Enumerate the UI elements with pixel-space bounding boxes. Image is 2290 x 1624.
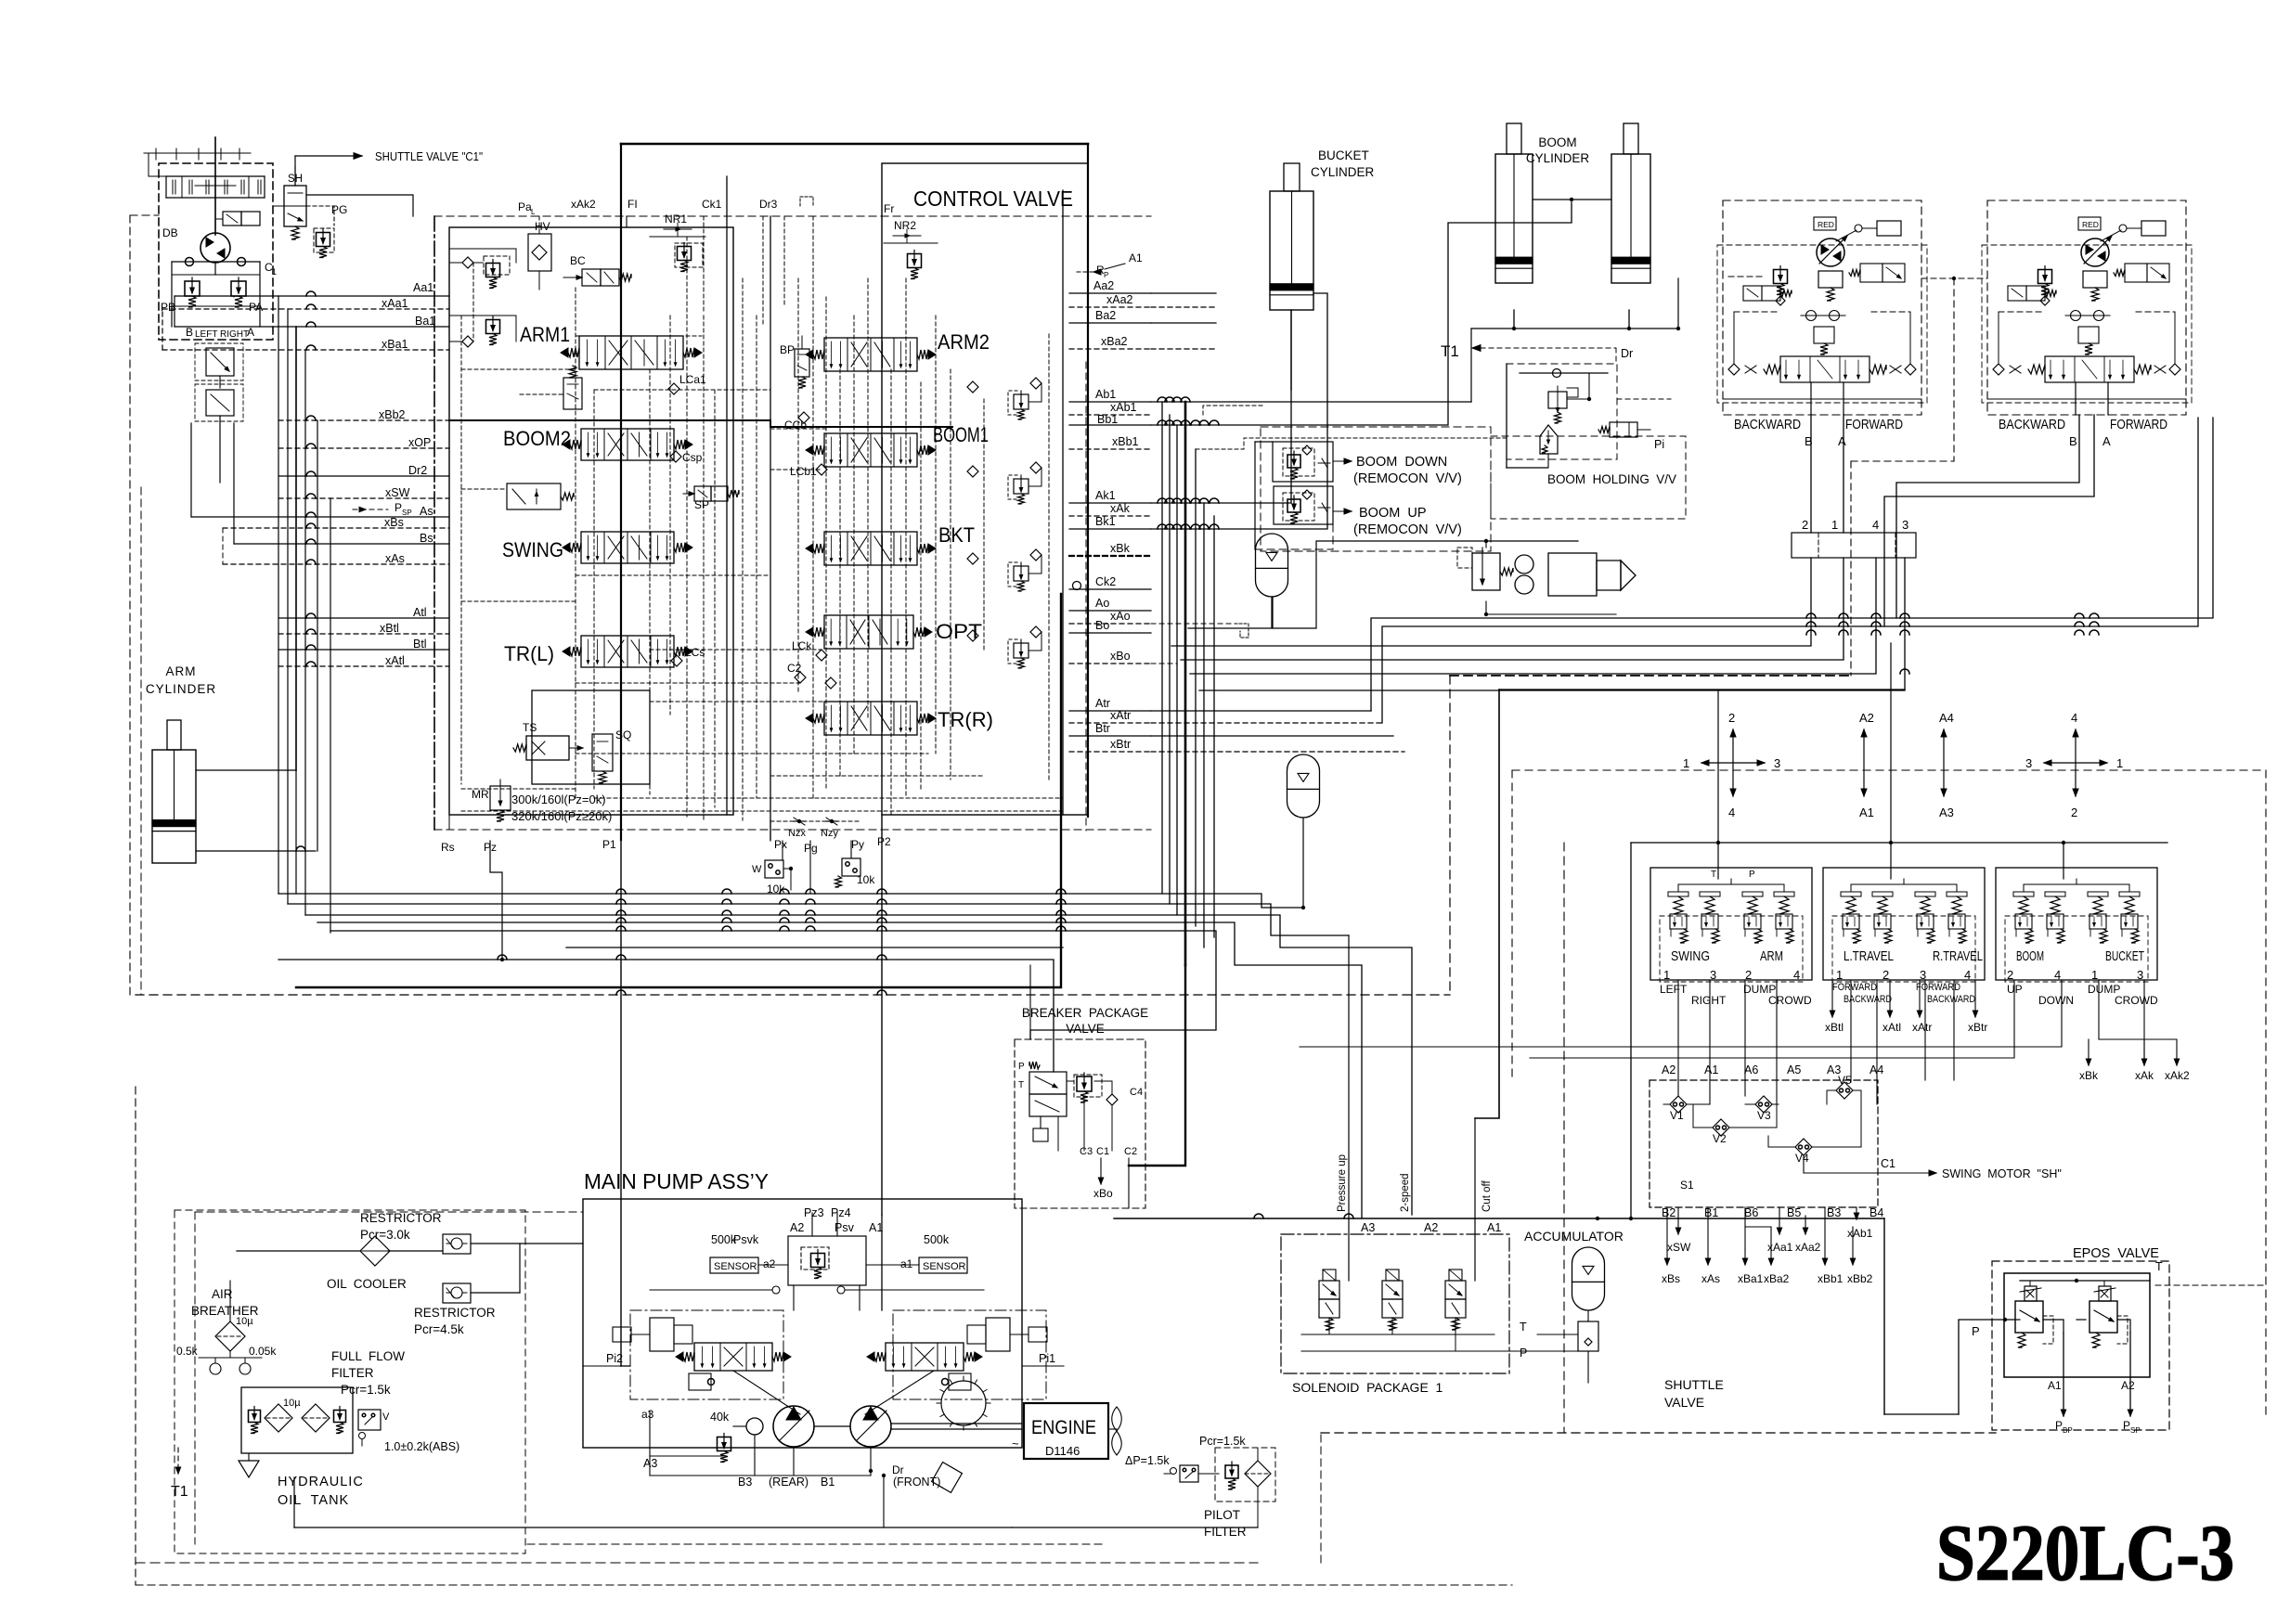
svg-text:L: L [531, 208, 536, 216]
pilot relief [1225, 1465, 1238, 1478]
relief cluster ba1 [462, 336, 473, 347]
svg-text:2: 2 [1745, 968, 1752, 982]
svg-text:B: B [186, 326, 193, 339]
svg-text:RESTRICTOR: RESTRICTOR [414, 1306, 496, 1320]
svg-text:A4: A4 [1939, 711, 1954, 725]
arrow boom down [1333, 460, 1352, 462]
svg-text:NR2: NR2 [894, 219, 916, 232]
svg-text:C3: C3 [1080, 1146, 1093, 1157]
T P manifold [1678, 883, 1784, 885]
boom cyl head lines [1513, 310, 1515, 329]
svg-text:B2: B2 [1662, 1206, 1675, 1219]
svg-text:A: A [247, 326, 254, 339]
2-speed dashed pilot [1450, 675, 1851, 677]
svg-text:10k: 10k [857, 873, 875, 886]
svg-text:1: 1 [1836, 968, 1843, 982]
svg-text:1: 1 [272, 267, 277, 277]
svg-text:xBtr: xBtr [1968, 1021, 1987, 1034]
svg-text:CONTROL VALVE: CONTROL VALVE [913, 187, 1073, 211]
svg-text:4: 4 [1793, 968, 1800, 982]
svg-text:T1: T1 [171, 1484, 188, 1500]
right bank check circles [967, 381, 978, 393]
svg-text:Dr: Dr [892, 1463, 904, 1476]
breather checks [210, 1363, 221, 1374]
svg-text:xBa2: xBa2 [1764, 1272, 1790, 1285]
svg-text:SP: SP [694, 498, 709, 511]
dashed port stubs [1660, 916, 1803, 982]
svg-text:2: 2 [1802, 518, 1808, 532]
svg-text:xBb1: xBb1 [1818, 1272, 1844, 1285]
svg-text:A1: A1 [1487, 1221, 1501, 1234]
svg-text:T: T [1520, 1321, 1527, 1334]
accumulator 3 [1572, 1247, 1605, 1310]
svg-text:LEFT: LEFT [1660, 983, 1688, 996]
svg-text:HV: HV [535, 220, 550, 233]
svg-text:T1: T1 [1441, 342, 1459, 360]
svg-text:xBk: xBk [2079, 1069, 2099, 1082]
EPOS prop valve 2 [2089, 1301, 2117, 1333]
svg-text:Ao: Ao [1095, 597, 1109, 610]
svg-text:A1: A1 [2048, 1379, 2062, 1392]
left dashed verticals bottom [174, 1244, 175, 1262]
svg-text:xBo: xBo [1093, 1187, 1113, 1200]
svg-text:LCa1: LCa1 [679, 373, 706, 386]
svg-text:MR: MR [472, 788, 489, 801]
svg-text:BKT: BKT [938, 523, 975, 547]
swing arm pilot drops to shuttle [1677, 980, 1679, 1080]
ENGINE box [1024, 1403, 1108, 1459]
svg-text:ARM: ARM [166, 664, 197, 678]
gear symbol small [932, 1463, 963, 1493]
boom holding valve group [1507, 364, 1617, 459]
pilot filter [1245, 1461, 1271, 1487]
svg-text:RED: RED [2082, 220, 2099, 229]
svg-text:VALVE: VALVE [1664, 1395, 1704, 1410]
svg-text:SWING: SWING [502, 538, 563, 561]
svg-text:Cut off: Cut off [1481, 1180, 1493, 1212]
pilot filter dashed box [1215, 1448, 1275, 1502]
svg-text:Dr: Dr [1621, 347, 1633, 360]
svg-text:BUCKET: BUCKET [1318, 148, 1369, 162]
dashed port stubs [1832, 916, 1975, 982]
svg-text:OIL TANK: OIL TANK [278, 1493, 349, 1508]
svg-text:Fr: Fr [884, 202, 894, 215]
svg-text:B1: B1 [821, 1476, 834, 1489]
EPOS P feed from shuttle [1884, 1413, 1959, 1415]
svg-text:SHUTTLE VALVE "C1": SHUTTLE VALVE "C1" [375, 149, 483, 163]
motor block [1818, 271, 1843, 288]
svg-text:2: 2 [1728, 711, 1735, 725]
full flow filter box [241, 1387, 353, 1453]
2-speed solenoid [2008, 286, 2026, 301]
svg-text:Aa1: Aa1 [413, 281, 433, 294]
LCb1 check [816, 464, 827, 475]
svg-text:DB: DB [162, 226, 178, 239]
svg-text:ΔP=1.5k: ΔP=1.5k [1125, 1454, 1170, 1467]
pilot gear pump [746, 1418, 763, 1435]
svg-text:Bb1: Bb1 [1097, 413, 1118, 426]
solenoid valve A1 [1445, 1281, 1466, 1299]
svg-text:D1146: D1146 [1045, 1444, 1080, 1458]
counterbalance inner dashed [1717, 245, 1927, 403]
remocon boom up valve [1274, 486, 1333, 524]
svg-text:10µ: 10µ [236, 1316, 253, 1327]
rcv feed drop right [2201, 664, 2203, 843]
filter bypass reliefs [249, 1411, 261, 1423]
valve PG relief [317, 233, 330, 247]
right port lines [1069, 292, 1151, 294]
svg-text:Pi: Pi [1654, 438, 1664, 451]
control valve internal pilot web [460, 316, 462, 784]
svg-text:LCk: LCk [792, 639, 812, 652]
svg-text:V5: V5 [1838, 1074, 1852, 1087]
remote control valve box SWING [1650, 868, 1812, 980]
svg-text:RIGHT: RIGHT [220, 329, 249, 340]
accumulator tie lines [1537, 1334, 1578, 1335]
svg-text:FI: FI [627, 198, 638, 211]
restrictor 2 [443, 1283, 471, 1303]
svg-text:3: 3 [2137, 968, 2143, 982]
svg-text:BREAKER PACKAGE: BREAKER PACKAGE [1022, 1006, 1148, 1020]
tank internal dashed box [175, 1210, 525, 1553]
svg-text:T: T [1711, 870, 1716, 880]
counterbalance spool [1780, 356, 1870, 382]
arm1 regen valve [563, 378, 582, 409]
svg-text:LEFT: LEFT [195, 329, 217, 340]
svg-text:TR(L): TR(L) [504, 642, 554, 665]
swing brake shuttle valve [206, 348, 234, 376]
speed change piston [1877, 221, 1901, 236]
svg-text:SOLENOID PACKAGE 1: SOLENOID PACKAGE 1 [1292, 1380, 1443, 1395]
svg-text:xAtl: xAtl [1882, 1021, 1901, 1034]
swing priority valve xSW [507, 483, 561, 509]
svg-text:xBa1: xBa1 [1738, 1272, 1764, 1285]
solenoid feed drops [1411, 1215, 1413, 1281]
svg-text:Psvk: Psvk [733, 1233, 759, 1246]
svg-text:a3: a3 [641, 1408, 654, 1421]
dashed box around remocons [1261, 427, 1491, 551]
svg-text:A1: A1 [869, 1221, 883, 1234]
cooler wires [237, 1250, 360, 1252]
svg-text:BACKWARD: BACKWARD [1734, 417, 1801, 432]
boom holding relief [1548, 392, 1567, 408]
svg-text:xBo: xBo [1110, 650, 1131, 663]
svg-text:xBa2: xBa2 [1101, 335, 1128, 348]
svg-text:4: 4 [1872, 518, 1879, 532]
bundle crossing bumps [1158, 420, 1167, 425]
OIL COOLER [360, 1236, 390, 1266]
svg-text:FORWARD: FORWARD [1832, 982, 1877, 993]
svg-text:A2: A2 [1859, 711, 1874, 725]
top port drops [626, 216, 627, 227]
pump swash diagonals [733, 1371, 800, 1414]
EPOS prop valve 1 [2015, 1301, 2043, 1333]
pump circles [773, 1406, 814, 1447]
svg-text:1: 1 [1831, 518, 1838, 532]
valve SQ [592, 734, 613, 771]
svg-text:xBk: xBk [1110, 542, 1131, 555]
svg-text:Ba2: Ba2 [1095, 309, 1116, 322]
swing motor drop links [174, 296, 175, 327]
svg-text:Pi2: Pi2 [606, 1352, 623, 1365]
engine fan [1112, 1407, 1122, 1431]
heavy return line [296, 594, 1061, 987]
svg-text:P: P [395, 501, 402, 514]
power shift regulator [788, 1236, 866, 1285]
boom2 Csp check [670, 451, 681, 462]
svg-text:xOP: xOP [408, 436, 431, 449]
throttle checks [1745, 366, 1756, 373]
C1 to swing motor arrow [1804, 1155, 1903, 1173]
right bundle verticals [1161, 402, 1163, 894]
svg-text:NR1: NR1 [665, 213, 687, 226]
svg-text:BOOM HOLDING V/V: BOOM HOLDING V/V [1547, 471, 1677, 486]
svg-text:Bk1: Bk1 [1095, 515, 1116, 528]
svg-text:Btr: Btr [1095, 722, 1110, 735]
left bank housing [449, 227, 733, 815]
P supply line to solenoid/shuttle [1114, 1218, 1884, 1219]
pump control spool right [886, 1343, 964, 1371]
svg-text:A2: A2 [1424, 1221, 1438, 1234]
svg-text:TS: TS [523, 721, 537, 734]
parking valve [1860, 264, 1882, 282]
svg-text:RED: RED [1818, 220, 1834, 229]
svg-text:1: 1 [1663, 968, 1670, 982]
check pair [2071, 311, 2081, 321]
port Dr3 dashed stub [800, 197, 813, 206]
svg-text:xAk2: xAk2 [2165, 1069, 2190, 1082]
svg-text:Ba1: Ba1 [415, 315, 435, 328]
svg-text:Nzx: Nzx [788, 828, 806, 839]
gear symbol big [941, 1381, 986, 1425]
pump control spool left [694, 1343, 772, 1371]
T P manifold [1851, 883, 1957, 885]
shuttle below wires and labels [1677, 1207, 1679, 1234]
boom cylinders rod-end link [1533, 199, 1611, 200]
air breather [215, 1321, 245, 1351]
crossover relief [2078, 327, 2099, 343]
dashed return bottom [148, 989, 149, 1087]
breaker selector valve [1029, 1072, 1067, 1094]
xBk xAk xAk2 labels [2088, 1039, 2089, 1065]
valve BP boom priority [795, 349, 809, 377]
wires swing to ports [233, 296, 235, 298]
svg-text:Ck1: Ck1 [702, 198, 722, 211]
xAb1 dashed jog [1203, 406, 1262, 415]
svg-text:S1: S1 [1680, 1179, 1694, 1192]
svg-text:Nzy: Nzy [821, 828, 838, 839]
svg-text:4: 4 [2054, 968, 2061, 982]
svg-text:xAs: xAs [385, 552, 405, 565]
svg-text:xBtl: xBtl [1825, 1021, 1844, 1034]
svg-text:xAa1: xAa1 [1767, 1241, 1793, 1254]
svg-text:(REMOCON V/V): (REMOCON V/V) [1353, 471, 1462, 486]
svg-text:B3: B3 [738, 1476, 752, 1489]
svg-text:1.0±0.2k(ABS): 1.0±0.2k(ABS) [384, 1440, 459, 1453]
svg-text:BOOM: BOOM [2016, 948, 2044, 964]
joystick swing/arm [1701, 762, 1765, 764]
solenoid package dash-dot box [1281, 1234, 1509, 1373]
left dashed return boundary [129, 215, 131, 995]
svg-text:500k: 500k [924, 1233, 950, 1246]
svg-text:2: 2 [2071, 806, 2077, 819]
control valve outer heavy top line [621, 143, 1088, 146]
joystick A4/A3 [1943, 729, 1945, 796]
svg-text:FILTER: FILTER [1204, 1525, 1247, 1539]
svg-text:BP: BP [780, 343, 795, 356]
svg-text:CYLINDER: CYLINDER [1526, 151, 1590, 165]
svg-text:A3: A3 [1361, 1221, 1375, 1234]
solenoid feed verticals [1348, 935, 1350, 1281]
long feeds down to pump P1 P2 [620, 841, 622, 1366]
svg-text:Py: Py [851, 838, 864, 851]
svg-text:xBs: xBs [384, 516, 404, 529]
svg-text:1: 1 [2091, 968, 2098, 982]
boom holding top line [1471, 328, 1678, 329]
control valve bottom stubs [448, 815, 450, 830]
dashed drain to tank [140, 487, 142, 995]
svg-text:Bs: Bs [420, 532, 433, 545]
svg-text:Bo: Bo [1095, 619, 1109, 632]
svg-text:xAo: xAo [1110, 610, 1131, 623]
svg-text:A6: A6 [1744, 1063, 1758, 1076]
travel straight valve TS [526, 736, 569, 760]
svg-text:40k: 40k [710, 1411, 730, 1424]
svg-text:300k/160l(Pz=0k): 300k/160l(Pz=0k) [511, 793, 606, 806]
valve SH [284, 186, 306, 226]
check pair [1806, 311, 1817, 321]
svg-text:BACKWARD: BACKWARD [1927, 994, 1975, 1005]
svg-text:Pressure up: Pressure up [1337, 1154, 1348, 1212]
EPOS inner housing [2004, 1273, 2150, 1377]
EPOS T line [2020, 1280, 2150, 1282]
tank symbol [239, 1461, 259, 1477]
svg-text:A: A [2102, 434, 2111, 448]
accumulator 2 mid [1287, 754, 1320, 818]
xBb1 dashed to boom holding [1196, 438, 1507, 449]
solenoid valve A2 [1382, 1281, 1403, 1299]
heavy pilot drop to breaker [1129, 965, 1185, 1166]
Nz throttles [794, 820, 805, 822]
svg-text:BUCKET: BUCKET [2105, 948, 2144, 964]
T1 bottom left [177, 1448, 179, 1474]
pump area dash boundary [195, 1211, 583, 1213]
svg-text:S220LC-3: S220LC-3 [1936, 1508, 2234, 1597]
svg-text:Pcr=1.5k: Pcr=1.5k [341, 1383, 391, 1397]
svg-text:10µ: 10µ [283, 1398, 301, 1409]
remocon boom down valve [1273, 442, 1333, 482]
swing anti-inversion valve [206, 390, 234, 416]
svg-text:Pcr=4.5k: Pcr=4.5k [414, 1322, 464, 1336]
staircase Atr xAtr Btr xBtr [1151, 710, 1371, 712]
svg-text:a1: a1 [900, 1257, 913, 1270]
LCk check [816, 650, 827, 661]
svg-text:(REMOCON V/V): (REMOCON V/V) [1353, 522, 1462, 537]
svg-text:xBtl: xBtl [380, 622, 399, 635]
svg-text:Pcr=3.0k: Pcr=3.0k [360, 1228, 410, 1242]
svg-text:PILOT: PILOT [1204, 1508, 1240, 1522]
svg-text:A: A [1838, 434, 1846, 448]
svg-text:a2: a2 [763, 1257, 776, 1270]
bottom ports [1987, 398, 2186, 400]
svg-text:P: P [1520, 1347, 1527, 1360]
RED tag [1814, 217, 1836, 230]
svg-text:3: 3 [1774, 756, 1780, 770]
motor block [2083, 271, 2107, 288]
svg-text:xAb1: xAb1 [1110, 401, 1137, 414]
link between travel motors [1921, 277, 1987, 279]
svg-text:xAs: xAs [1701, 1272, 1720, 1285]
C2 check [795, 672, 806, 683]
svg-text:ARM2: ARM2 [938, 330, 990, 354]
pilot filter wires [1147, 1473, 1164, 1475]
Ck2 check circle [1073, 582, 1081, 590]
svg-text:BACKWARD: BACKWARD [1999, 417, 2065, 432]
svg-text:L.TRAVEL: L.TRAVEL [1844, 948, 1894, 964]
valve BC bypass cut solenoid [582, 269, 601, 286]
svg-text:B1: B1 [1704, 1206, 1718, 1219]
svg-text:RESTRICTOR: RESTRICTOR [360, 1211, 442, 1225]
svg-text:P: P [1749, 870, 1755, 880]
svg-text:Ck2: Ck2 [1095, 575, 1116, 588]
svg-text:As: As [420, 505, 433, 518]
solenoid internal wires [1328, 1318, 1330, 1334]
svg-text:C4: C4 [1130, 1087, 1143, 1098]
shuttle elements V1-V5 [1670, 1096, 1687, 1113]
boom bucket pilot drops [1530, 980, 2014, 1058]
svg-text:A2: A2 [2121, 1379, 2135, 1392]
svg-text:ARM1: ARM1 [520, 323, 570, 346]
pump shaft [814, 1425, 850, 1427]
pump inner dash-dot boxes [630, 1310, 783, 1399]
svg-text:VALVE: VALVE [1066, 1022, 1105, 1036]
right travel motor drops [1896, 415, 2079, 618]
xBo dashed down to breaker [1151, 663, 1177, 664]
svg-text:xBtr: xBtr [1110, 738, 1131, 751]
svg-text:4: 4 [1964, 968, 1971, 982]
svg-text:C2: C2 [787, 662, 802, 675]
svg-text:BP: BP [2063, 1426, 2073, 1435]
servo small left [689, 1373, 711, 1390]
svg-text:C1: C1 [1096, 1146, 1109, 1157]
valve SP [694, 486, 711, 501]
right bank housing [882, 163, 1088, 815]
Pz drop [490, 841, 502, 960]
svg-text:ACCUMULATOR: ACCUMULATOR [1524, 1229, 1624, 1244]
svg-text:CYLINDER: CYLINDER [1311, 165, 1375, 179]
counterbalance inner dashed [1982, 245, 2192, 403]
svg-text:xAa1: xAa1 [382, 297, 408, 310]
svg-text:Px: Px [774, 838, 787, 851]
svg-text:B: B [2069, 434, 2077, 448]
accumulator 1 [1256, 534, 1288, 597]
svg-text:Ak1: Ak1 [1095, 489, 1116, 502]
pilot relief 10k x [765, 860, 783, 878]
2-speed solenoid [1743, 286, 1762, 301]
svg-text:xBb2: xBb2 [1847, 1272, 1873, 1285]
travel motor [1817, 238, 1844, 266]
relief left [1774, 270, 1788, 284]
svg-text:Rs: Rs [441, 841, 455, 854]
suction lines [229, 1281, 231, 1321]
wires below shuttle block [1171, 558, 1811, 646]
svg-text:CROWD: CROWD [1768, 994, 1812, 1007]
CCb check [798, 412, 809, 423]
svg-text:V4: V4 [1795, 1152, 1809, 1165]
svg-text:A1: A1 [1129, 251, 1143, 264]
svg-text:2: 2 [2007, 968, 2013, 982]
pilot relief 10k y [842, 858, 860, 876]
